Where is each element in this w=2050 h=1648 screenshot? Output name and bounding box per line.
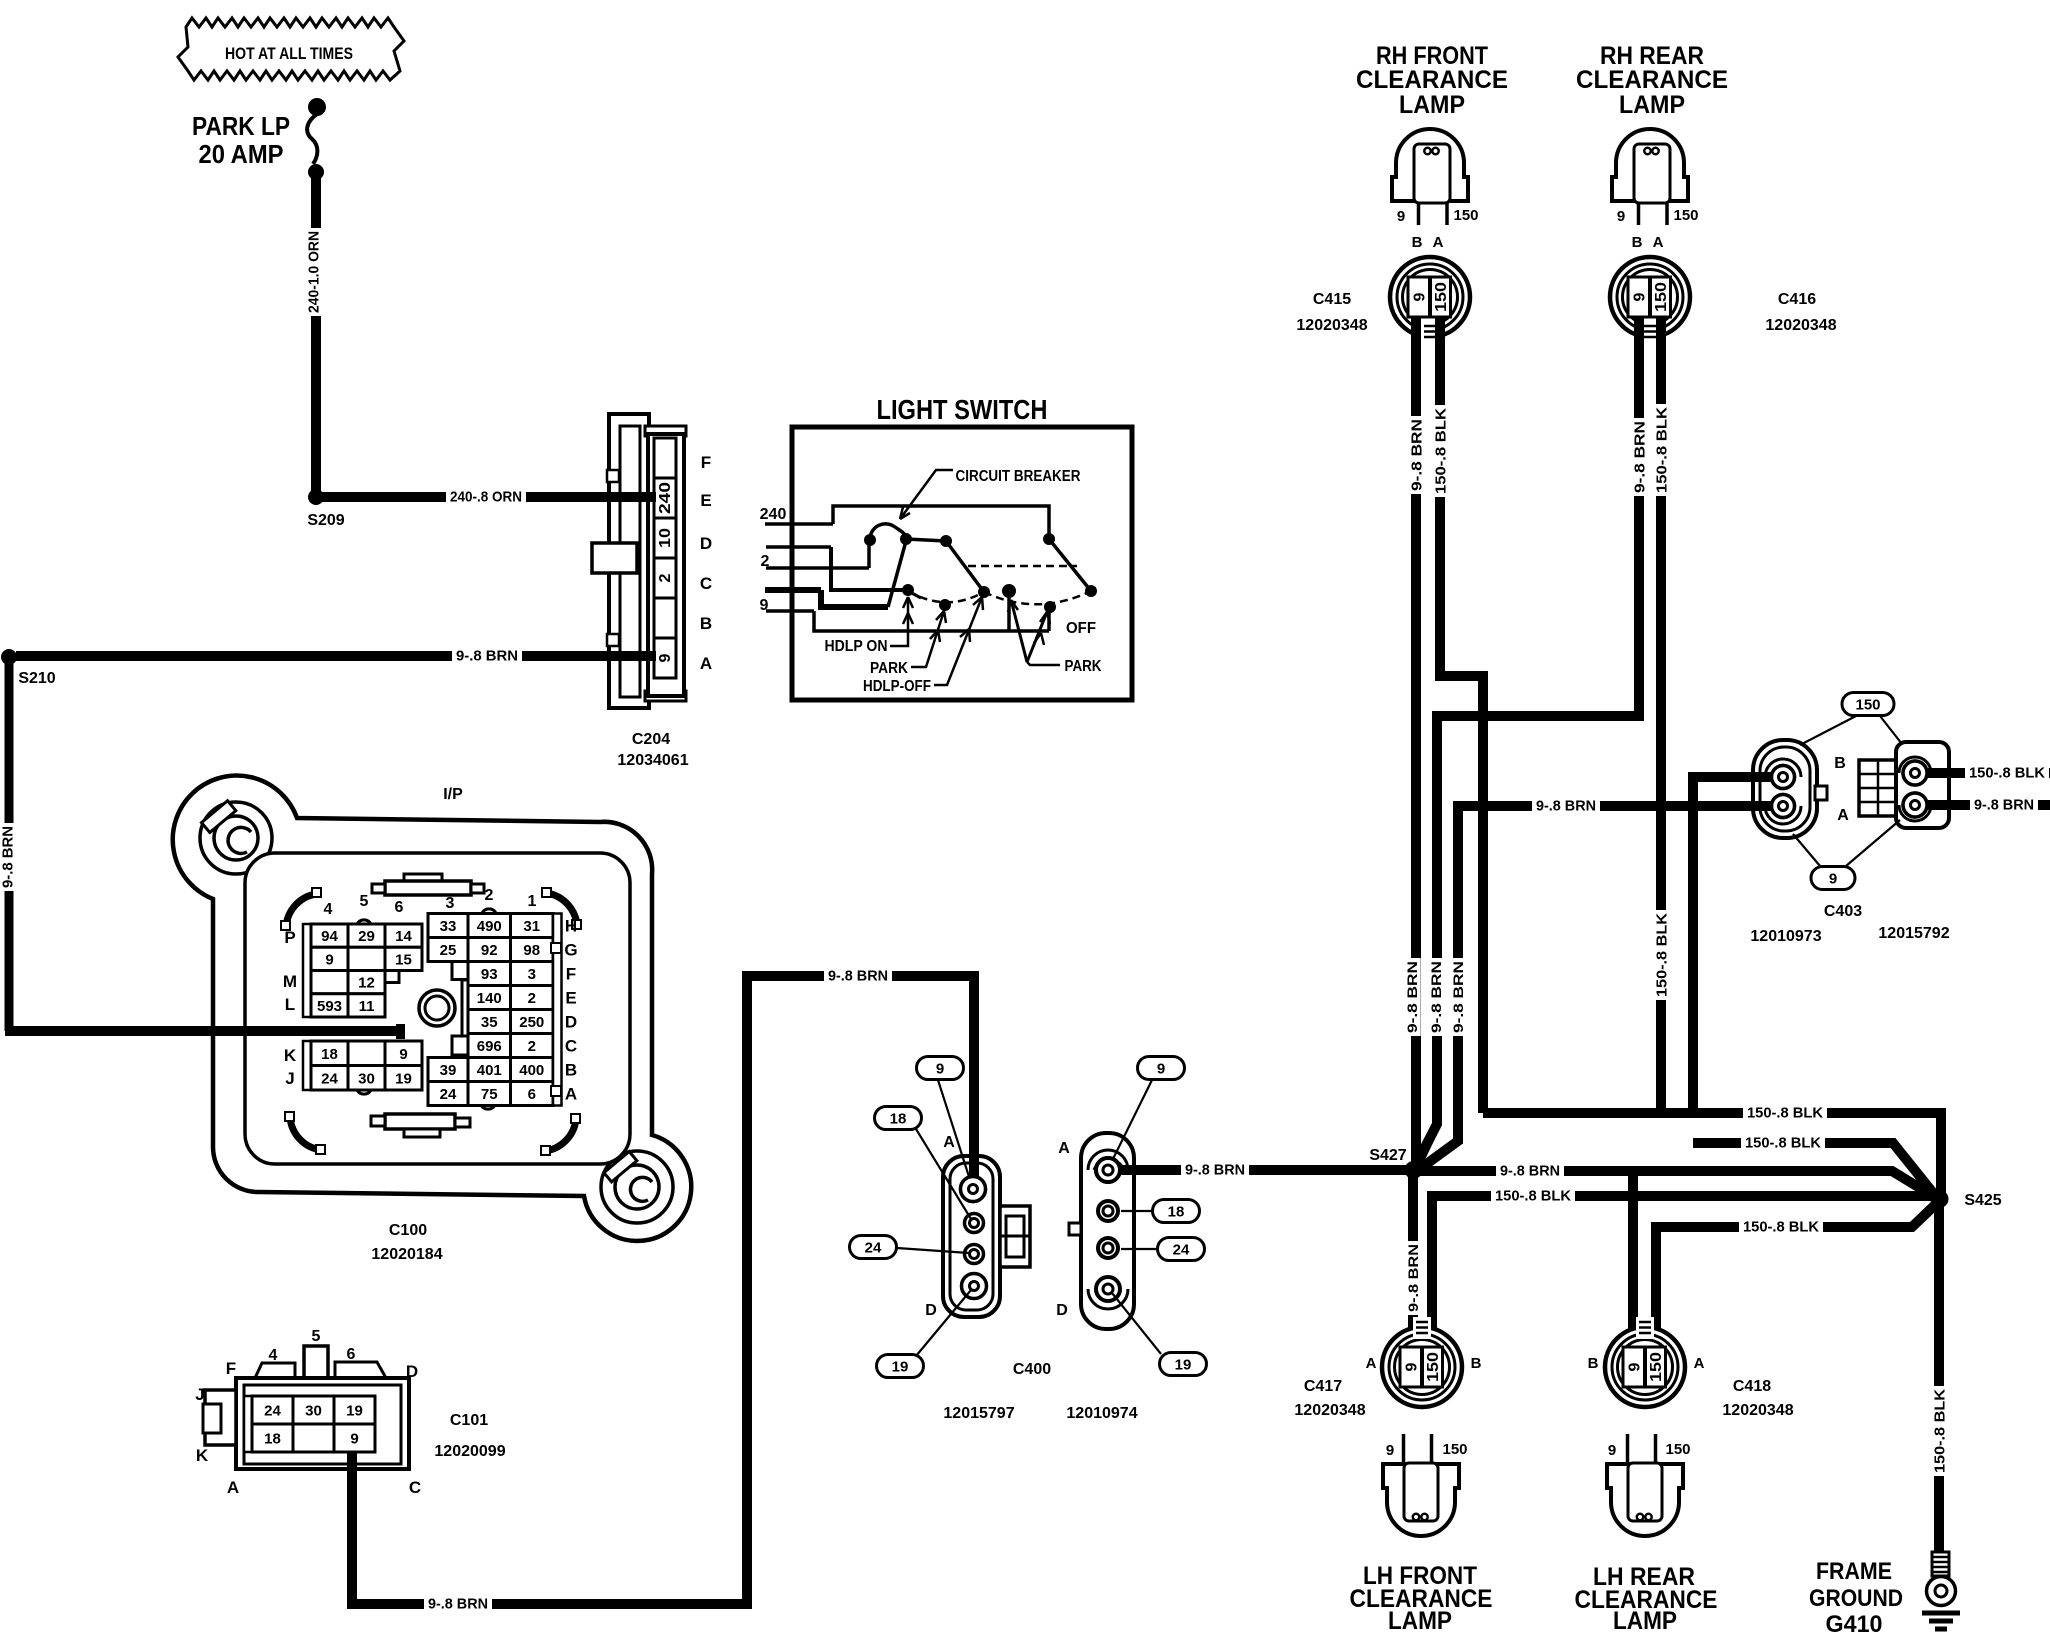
callout 18: [875, 1107, 922, 1130]
svg-text:150: 150: [1442, 1441, 1467, 1458]
wire 9-.8 BRN into C204-A: [605, 651, 656, 661]
svg-text:B: B: [565, 1061, 577, 1080]
svg-text:150-.8 BLK: 150-.8 BLK: [1969, 764, 2045, 781]
svg-text:18: 18: [264, 1431, 281, 1448]
svg-text:C: C: [565, 1037, 577, 1056]
thick wire to blade: [821, 590, 888, 607]
svg-text:A: A: [1837, 807, 1849, 824]
lamp bulb RH REAR: [1612, 129, 1688, 201]
svg-text:C400: C400: [1013, 1361, 1051, 1378]
contact top right: [1043, 533, 1055, 545]
svg-text:593: 593: [317, 998, 342, 1015]
wire breaker to contact: [906, 539, 946, 541]
svg-text:12010974: 12010974: [1066, 1405, 1137, 1422]
svg-text:14: 14: [395, 928, 412, 945]
svg-text:150: 150: [1665, 1441, 1690, 1458]
svg-text:D: D: [925, 1302, 937, 1319]
svg-text:9-.8 BRN: 9-.8 BRN: [456, 647, 518, 664]
riser to OFF contact: [1007, 594, 1011, 631]
connector C417: [1382, 1327, 1462, 1407]
svg-text:PARK: PARK: [1065, 658, 1103, 675]
wire 150-.8 BLK RH FRONT: [1440, 317, 1483, 1113]
callout 19: [1160, 1353, 1207, 1376]
svg-text:24: 24: [440, 1086, 457, 1103]
svg-text:240-.8 ORN: 240-.8 ORN: [450, 488, 522, 505]
svg-text:9: 9: [760, 597, 769, 614]
wire 9-.8 BRN into I/P C100: [5, 1026, 401, 1036]
svg-text:C403: C403: [1824, 903, 1862, 920]
svg-text:19: 19: [395, 1070, 412, 1087]
svg-text:18: 18: [321, 1046, 338, 1063]
C204 pin cell E: [654, 478, 676, 518]
svg-text:31: 31: [523, 918, 540, 935]
wire 9-.8 BRN S210 to C204-A: [16, 651, 660, 661]
svg-text:LAMP: LAMP: [1399, 91, 1465, 119]
svg-text:250: 250: [519, 1014, 544, 1031]
svg-text:150-.8 BLK: 150-.8 BLK: [1653, 407, 1670, 493]
lamp bulb LH FRONT: [1383, 1464, 1459, 1536]
svg-text:B: B: [1412, 234, 1423, 251]
leader PARK left: [911, 611, 944, 667]
svg-text:6: 6: [395, 899, 404, 916]
svg-text:30: 30: [358, 1070, 375, 1087]
svg-text:LIGHT SWITCH: LIGHT SWITCH: [877, 394, 1048, 425]
splice S425: [1931, 1190, 1949, 1208]
bevel RH REAR into S427: [1418, 1124, 1437, 1164]
wire 150-.8 BLK into C403-B: [1750, 772, 1780, 782]
svg-text:12020348: 12020348: [1722, 1402, 1793, 1419]
svg-text:9: 9: [399, 1046, 407, 1063]
svg-text:B: B: [1834, 755, 1846, 772]
svg-text:39: 39: [440, 1062, 457, 1079]
svg-text:C418: C418: [1733, 1378, 1771, 1395]
arrowheads: [960, 597, 983, 642]
svg-text:A: A: [1694, 1355, 1705, 1372]
svg-text:P: P: [284, 928, 295, 947]
svg-text:HDLP ON: HDLP ON: [825, 638, 888, 655]
wire 150-.8 BLK to S425 (top): [1483, 1113, 1941, 1194]
wire 240 to switch contact: [833, 506, 1049, 535]
bolt inner detail: [228, 827, 251, 853]
light switch stub 2nd: [766, 545, 831, 549]
svg-text:9: 9: [1386, 1442, 1394, 1459]
lamp bulb RH FRONT: [1392, 129, 1468, 201]
C100 inner housing: [245, 853, 630, 1164]
svg-text:240-1.0 ORN: 240-1.0 ORN: [305, 231, 322, 313]
svg-text:CIRCUIT BREAKER: CIRCUIT BREAKER: [956, 468, 1081, 485]
contact: [940, 535, 952, 547]
wire 150-.8 BLK LH FRONT to S425: [1432, 1196, 1932, 1349]
switch blade to HDLP-OFF: [946, 541, 984, 592]
callout 9: [1138, 1057, 1185, 1080]
connector C403 right 12015792: [1859, 760, 1897, 816]
svg-text:29: 29: [358, 928, 375, 945]
svg-text:150-.8 BLK: 150-.8 BLK: [1432, 408, 1449, 494]
contact OFF: [1002, 584, 1016, 598]
diamond line: [1793, 834, 1820, 866]
svg-text:S425: S425: [1964, 1192, 2001, 1209]
svg-text:G: G: [564, 941, 577, 960]
svg-text:C204: C204: [632, 731, 670, 748]
svg-text:A: A: [1058, 1140, 1070, 1157]
arrowheads: [930, 611, 946, 642]
light switch input 2: [766, 566, 869, 570]
svg-text:9-.8 BRN: 9-.8 BRN: [828, 967, 888, 984]
svg-text:LAMP: LAMP: [1388, 1607, 1452, 1635]
svg-text:B: B: [1588, 1355, 1599, 1372]
svg-text:9: 9: [1404, 1362, 1421, 1371]
connector C400 left half 12015797: [943, 1156, 1000, 1317]
wire 9-.8 BRN into C403-A: [1750, 801, 1780, 811]
circuit breaker arc: [870, 524, 906, 541]
svg-text:150-.8 BLK: 150-.8 BLK: [1495, 1187, 1571, 1204]
svg-text:150: 150: [1653, 282, 1670, 312]
arrowheads up: [903, 597, 913, 624]
svg-text:4: 4: [324, 901, 333, 918]
C100 top tab: [404, 874, 442, 883]
svg-text:C: C: [409, 1478, 421, 1497]
light switch thick stub: [765, 587, 821, 593]
svg-text:J: J: [285, 1069, 294, 1088]
crimp C416: [1641, 321, 1659, 343]
svg-text:2: 2: [528, 1038, 536, 1055]
wire 240-1.0 ORN fuse to S209: [311, 176, 321, 497]
wire 150-.8 BLK S425 to LH REAR: [1656, 1204, 1936, 1349]
svg-text:18: 18: [1168, 1204, 1185, 1221]
svg-text:B: B: [1632, 234, 1643, 251]
V arrows PARK right: [1011, 600, 1047, 662]
svg-text:10: 10: [657, 528, 674, 548]
svg-text:GROUND: GROUND: [1809, 1585, 1903, 1612]
svg-text:75: 75: [481, 1086, 498, 1103]
svg-text:150-.8 BLK: 150-.8 BLK: [1743, 1218, 1819, 1235]
C100 bolt bottom-right: [601, 1151, 673, 1223]
svg-text:93: 93: [481, 966, 498, 983]
svg-text:12015797: 12015797: [943, 1405, 1014, 1422]
leader circuit breaker: [900, 470, 953, 519]
svg-text:C101: C101: [450, 1412, 488, 1429]
C100 corner arc TR: [546, 893, 577, 925]
svg-text:401: 401: [477, 1062, 502, 1079]
svg-text:2: 2: [485, 887, 494, 904]
svg-text:CLEARANCE: CLEARANCE: [1576, 66, 1728, 94]
svg-text:S427: S427: [1369, 1147, 1406, 1164]
svg-text:12020348: 12020348: [1296, 317, 1367, 334]
svg-text:4: 4: [269, 1347, 278, 1364]
frame ground lug G410: [1932, 1552, 1949, 1576]
C100 bottom tab: [385, 1114, 455, 1129]
svg-text:9: 9: [1632, 292, 1649, 301]
leader HDLP-OFF: [934, 597, 982, 685]
crimp C415: [1421, 321, 1439, 343]
svg-text:150: 150: [1648, 1352, 1665, 1382]
svg-text:FRAME: FRAME: [1816, 1558, 1892, 1585]
svg-text:C: C: [700, 574, 712, 593]
tick at HDLP ON contact: [908, 591, 921, 598]
contact PARK right: [1044, 601, 1056, 613]
svg-text:33: 33: [440, 918, 457, 935]
wire 9-.8 BRN down to LH REAR lamp: [1628, 1171, 1638, 1349]
switch blade HDLP: [888, 541, 906, 607]
svg-text:150: 150: [1453, 207, 1478, 224]
svg-text:S209: S209: [307, 512, 344, 529]
svg-text:F: F: [226, 1359, 236, 1378]
arrowheads: [1008, 600, 1050, 645]
svg-text:2: 2: [761, 553, 770, 570]
svg-text:2: 2: [528, 990, 536, 1007]
svg-text:HDLP-OFF: HDLP-OFF: [863, 678, 931, 695]
diamond line: [1800, 716, 1856, 745]
callout 18: [1153, 1200, 1200, 1223]
svg-text:OFF: OFF: [1066, 620, 1096, 637]
svg-text:20 AMP: 20 AMP: [199, 139, 284, 169]
svg-text:24: 24: [264, 1403, 281, 1420]
svg-text:5: 5: [360, 893, 369, 910]
svg-text:9-.8 BRN: 9-.8 BRN: [1974, 796, 2034, 813]
leader PARK right: [1027, 662, 1060, 665]
svg-text:C417: C417: [1304, 1378, 1342, 1395]
wire 150-.8 BLK C403 east: [1927, 768, 2050, 778]
svg-text:1: 1: [528, 893, 537, 910]
crimp C417: [1413, 1317, 1431, 1339]
wire 9-.8 BRN into C100: [200, 1026, 401, 1036]
C204 pin cell C: [654, 558, 676, 598]
svg-text:490: 490: [477, 918, 502, 935]
svg-text:H: H: [565, 917, 577, 936]
svg-text:400: 400: [519, 1062, 544, 1079]
svg-text:19: 19: [346, 1403, 363, 1420]
wire 9-.8 BRN RH FRONT to S427: [1411, 317, 1421, 1163]
svg-text:D: D: [700, 534, 712, 553]
C100 corner arc BR: [545, 1119, 576, 1151]
wire 150-.8 BLK RH REAR: [1656, 317, 1666, 1117]
svg-text:150: 150: [1855, 697, 1880, 714]
svg-text:D: D: [406, 1362, 418, 1381]
svg-text:12034061: 12034061: [617, 752, 688, 769]
light switch input 9: [766, 609, 814, 613]
svg-text:PARK: PARK: [870, 660, 909, 677]
svg-text:K: K: [284, 1046, 297, 1065]
svg-text:I/P: I/P: [443, 786, 463, 803]
svg-text:9-.8 BRN: 9-.8 BRN: [0, 826, 16, 888]
svg-text:12020184: 12020184: [371, 1246, 442, 1263]
svg-text:A: A: [943, 1134, 955, 1151]
svg-text:24: 24: [1173, 1242, 1190, 1259]
C100 corner arc TL: [286, 894, 316, 927]
dashed park arc left: [908, 591, 984, 602]
svg-text:92: 92: [481, 942, 498, 959]
svg-text:98: 98: [523, 942, 540, 959]
svg-text:696: 696: [477, 1038, 502, 1055]
riser to PARK contact: [1047, 609, 1051, 631]
splice S209: [308, 489, 324, 505]
svg-text:9-.8 BRN: 9-.8 BRN: [1404, 961, 1420, 1033]
svg-text:E: E: [700, 491, 711, 510]
svg-text:9: 9: [325, 951, 333, 968]
svg-text:6: 6: [347, 1346, 356, 1363]
svg-text:A: A: [565, 1085, 577, 1104]
svg-text:12020348: 12020348: [1765, 317, 1836, 334]
svg-text:5: 5: [312, 1328, 321, 1345]
svg-text:J: J: [195, 1385, 204, 1404]
svg-text:150-.8 BLK: 150-.8 BLK: [1747, 1104, 1823, 1121]
fuse box callout: HOT AT ALL TIMES zigzag border: [178, 18, 404, 80]
svg-text:M: M: [283, 972, 297, 991]
C204 pin cell B: [654, 598, 676, 638]
svg-text:C100: C100: [389, 1222, 427, 1239]
splice S210: [1, 649, 17, 665]
C100 grid upper-left: [303, 924, 311, 1017]
svg-text:C415: C415: [1313, 291, 1351, 308]
light switch input 240: [765, 522, 833, 526]
callout 9: [1811, 867, 1855, 890]
callout 150: [1842, 693, 1894, 716]
svg-text:CLEARANCE: CLEARANCE: [1356, 66, 1508, 94]
svg-text:3: 3: [446, 895, 455, 912]
C100 grid lower-left: [303, 1041, 311, 1090]
wire 150-.8 BLK C403-B down: [1693, 777, 1771, 1117]
svg-text:C416: C416: [1778, 291, 1816, 308]
svg-text:35: 35: [481, 1014, 498, 1031]
svg-text:150: 150: [1673, 207, 1698, 224]
svg-text:150: 150: [1425, 1352, 1442, 1382]
C204 pin cell A: [654, 638, 676, 678]
connector C204: [609, 414, 649, 708]
svg-text:HOT AT ALL TIMES: HOT AT ALL TIMES: [225, 44, 353, 63]
ground symbol: [1922, 1611, 1960, 1616]
svg-text:3: 3: [528, 966, 536, 983]
wire 9-.8 BRN S427 to C403-A: [1421, 806, 1771, 1168]
svg-text:94: 94: [321, 928, 338, 945]
splice S427: [1405, 1161, 1423, 1179]
diamond line: [1880, 716, 1902, 744]
connector C400 right half 12010974: [1081, 1133, 1134, 1329]
svg-text:B: B: [700, 614, 712, 633]
C100 right grid: [468, 914, 511, 938]
wire 9-.8 BRN S427 east: [1420, 1171, 1933, 1196]
svg-text:D: D: [1056, 1302, 1068, 1319]
wire 9-.8 BRN S210 down: [5, 657, 14, 1031]
svg-text:9: 9: [1627, 1362, 1644, 1371]
svg-text:9: 9: [1617, 208, 1625, 225]
wire 150-.8 BLK S425 to frame ground: [1934, 1206, 1944, 1560]
svg-text:150-.8 BLK: 150-.8 BLK: [1745, 1134, 1821, 1151]
svg-text:12015792: 12015792: [1878, 925, 1949, 942]
contact HDLP ON: [902, 584, 914, 596]
callout 9: [917, 1057, 964, 1080]
callout 24: [850, 1236, 897, 1259]
dashed OFF position: [968, 565, 1077, 568]
svg-text:140: 140: [477, 990, 502, 1007]
svg-text:B: B: [1471, 1355, 1482, 1372]
svg-text:9: 9: [1412, 292, 1429, 301]
svg-text:240: 240: [657, 482, 674, 514]
svg-text:LAMP: LAMP: [1613, 1607, 1677, 1635]
svg-text:6: 6: [528, 1086, 536, 1103]
wire 9-.8 BRN RH REAR to S427: [1417, 317, 1639, 1163]
arrowhead: [900, 507, 910, 519]
wire 9 to park contacts: [814, 611, 1049, 631]
svg-text:9-.8 BRN: 9-.8 BRN: [1408, 419, 1425, 491]
svg-text:9: 9: [1829, 871, 1837, 888]
svg-text:9-.8 BRN: 9-.8 BRN: [1185, 1161, 1245, 1178]
svg-text:9: 9: [936, 1061, 944, 1078]
svg-text:19: 19: [892, 1359, 909, 1376]
svg-text:24: 24: [865, 1240, 882, 1257]
svg-text:15: 15: [395, 951, 412, 968]
svg-text:30: 30: [305, 1403, 322, 1420]
svg-text:9-.8 BRN: 9-.8 BRN: [1450, 961, 1466, 1033]
wire 240-.8 ORN into C204-E: [605, 492, 656, 502]
wire 240-.8 ORN S209 to C204-E: [316, 492, 660, 502]
svg-text:G410: G410: [1826, 1611, 1883, 1638]
svg-text:9: 9: [1397, 208, 1405, 225]
leader HDLP ON: [890, 597, 908, 646]
svg-text:150-.8 BLK: 150-.8 BLK: [1931, 1389, 1948, 1473]
lamp bulb LH REAR: [1607, 1464, 1683, 1536]
svg-text:9-.8 BRN: 9-.8 BRN: [428, 1595, 488, 1612]
wire 9-.8 BRN to S427: [1114, 1165, 1408, 1175]
svg-text:A: A: [1366, 1355, 1377, 1372]
connector C418: [1605, 1327, 1685, 1407]
svg-text:150-.8 BLK: 150-.8 BLK: [1653, 913, 1670, 997]
svg-text:18: 18: [890, 1111, 907, 1128]
svg-text:A: A: [1433, 234, 1444, 251]
svg-text:A: A: [1653, 234, 1664, 251]
connector C415: [1390, 257, 1470, 337]
svg-text:9-.8 BRN: 9-.8 BRN: [1405, 1244, 1421, 1312]
C204 pin cell D: [654, 518, 676, 558]
svg-text:25: 25: [440, 942, 457, 959]
svg-text:12: 12: [358, 975, 375, 992]
wire 9-.8 BRN C403 east: [1927, 800, 2050, 810]
svg-text:E: E: [565, 989, 576, 1008]
C204 pin cell F: [654, 438, 676, 478]
wire to HDLP ON contact: [831, 547, 905, 590]
wire 2 up to breaker: [867, 542, 871, 568]
svg-text:9-.8 BRN: 9-.8 BRN: [1500, 1162, 1560, 1179]
diamond line: [1846, 820, 1900, 866]
C100 bolt top-left: [200, 802, 272, 874]
svg-text:19: 19: [1175, 1357, 1192, 1374]
svg-text:L: L: [285, 995, 295, 1014]
svg-text:9-.8 BRN: 9-.8 BRN: [1428, 961, 1444, 1033]
connector C101: [255, 1363, 295, 1378]
C100 corner arc BL: [290, 1117, 321, 1150]
svg-text:F: F: [566, 965, 576, 984]
contact PARK left: [939, 599, 951, 611]
svg-text:K: K: [196, 1446, 209, 1465]
svg-text:9: 9: [1608, 1442, 1616, 1459]
connector C403 left 12010973: [1753, 740, 1817, 838]
callout 24: [1158, 1238, 1205, 1261]
svg-text:9: 9: [657, 653, 674, 662]
svg-text:240: 240: [760, 506, 787, 523]
svg-text:D: D: [565, 1013, 577, 1032]
svg-text:12020348: 12020348: [1294, 1402, 1365, 1419]
contact HDLP-OFF: [978, 586, 990, 598]
svg-text:11: 11: [359, 998, 375, 1015]
svg-text:9-.8 BRN: 9-.8 BRN: [1536, 797, 1596, 814]
svg-text:150: 150: [1433, 282, 1450, 312]
svg-text:A: A: [227, 1478, 239, 1497]
svg-text:9: 9: [1157, 1061, 1165, 1078]
svg-text:PARK LP: PARK LP: [192, 111, 290, 141]
svg-text:A: A: [700, 654, 712, 673]
C100 center circle: [419, 990, 455, 1026]
svg-text:12010973: 12010973: [1750, 928, 1821, 945]
svg-text:LAMP: LAMP: [1619, 91, 1685, 119]
